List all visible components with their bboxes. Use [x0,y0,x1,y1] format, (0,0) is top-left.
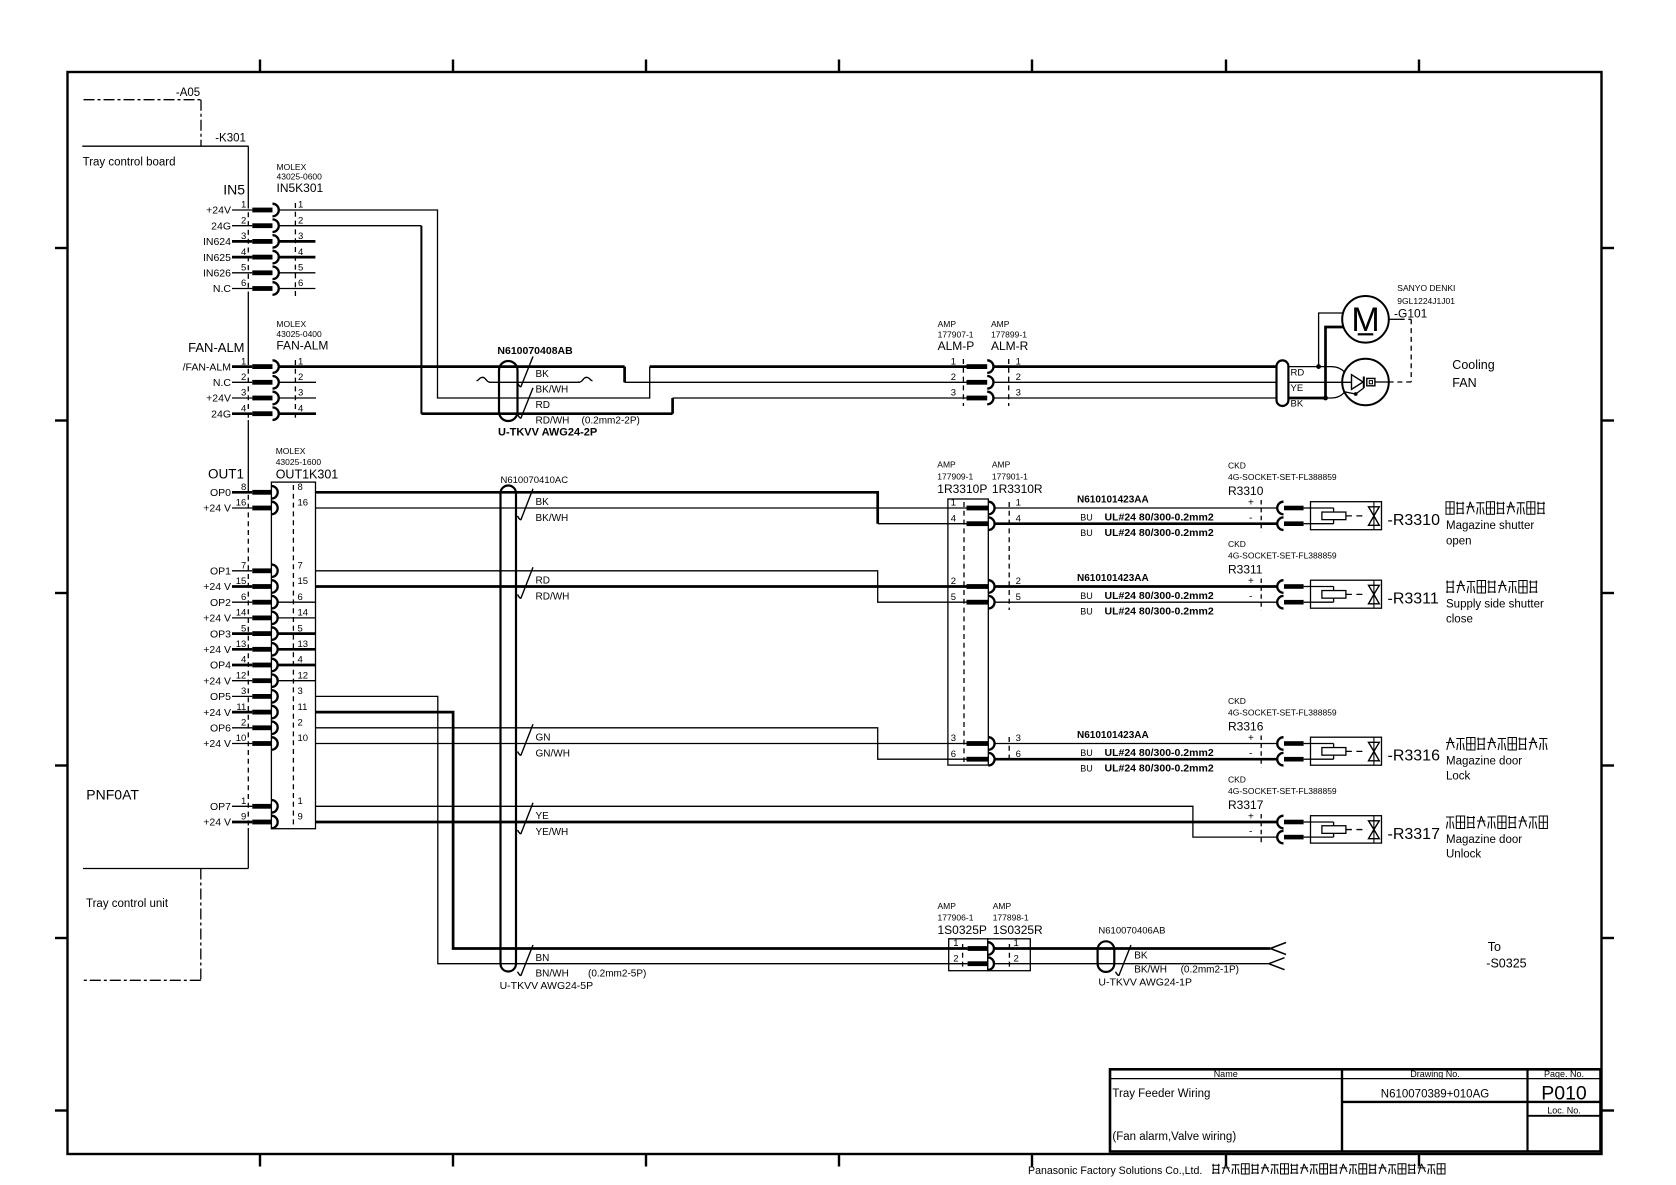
wire RD up to motor [1319,313,1344,367]
wire BN (+24V) [316,712,968,948]
svg-text:(Fan alarm,Valve wiring): (Fan alarm,Valve wiring) [1112,1131,1236,1143]
valve R3317 Magazine door Unlock [1228,775,1547,861]
svg-text:OP5: OP5 [210,691,231,703]
svg-text:GN: GN [536,733,551,744]
svg-text:+24 V: +24 V [203,675,231,687]
node: RD junction [1316,364,1321,369]
svg-text:Name: Name [1214,1069,1238,1079]
svg-text:BK: BK [536,497,550,508]
svg-text:-G101: -G101 [1394,307,1428,321]
wire BK to -S0325 [995,947,1270,950]
svg-text:4G-SOCKET-SET-FL388859: 4G-SOCKET-SET-FL388859 [1228,786,1337,796]
svg-text:close: close [1446,614,1473,626]
svg-text:-: - [1249,513,1252,524]
svg-text:1: 1 [241,356,246,367]
svg-text:5: 5 [298,263,303,274]
svg-text:1R3310R: 1R3310R [992,482,1043,496]
svg-text:+24 V: +24 V [203,613,231,625]
svg-text:CKD: CKD [1228,775,1246,785]
svg-text:43025-1600: 43025-1600 [276,457,322,467]
svg-text:Unlock: Unlock [1446,849,1481,861]
svg-text:OP7: OP7 [210,801,231,813]
svg-text:ALM-P: ALM-P [938,339,975,353]
wire RD (OP1) [316,571,967,602]
svg-text:AMP: AMP [937,460,956,470]
wire /FAN-ALM BK (thick) [280,365,625,368]
svg-text:3: 3 [298,388,303,399]
svg-text:-K301: -K301 [215,133,246,145]
svg-text:177907-1: 177907-1 [938,330,974,340]
svg-text:+24 V: +24 V [203,707,231,719]
svg-text:FAN-ALM: FAN-ALM [188,340,244,355]
svg-text:+24 V: +24 V [203,503,231,515]
svg-text:1: 1 [298,200,303,211]
svg-text:SANYO DENKI: SANYO DENKI [1397,283,1455,293]
svg-text:OUT1K301: OUT1K301 [276,468,339,482]
svg-text:2: 2 [953,953,958,964]
svg-text:10: 10 [236,733,247,744]
svg-text:1R3310P: 1R3310P [937,482,987,496]
svg-text:ALM-R: ALM-R [991,339,1029,353]
svg-text:N610101423AA: N610101423AA [1077,495,1149,506]
svg-text:RD/WH: RD/WH [536,416,570,427]
svg-text:1: 1 [1016,498,1021,509]
svg-text:Magazine door: Magazine door [1446,756,1522,768]
svg-text:2: 2 [1016,372,1021,383]
svg-text:R3316: R3316 [1228,720,1264,734]
svg-text:OP1: OP1 [210,566,231,578]
svg-text:-A05: -A05 [176,87,200,99]
svg-text:OP6: OP6 [210,723,231,735]
wire RD/WH (+24V) [316,585,967,588]
wire BK to fan [994,397,1277,399]
svg-text:AMP: AMP [991,319,1010,329]
svg-text:P010: P010 [1541,1083,1587,1105]
svg-text:OP3: OP3 [210,628,231,640]
svg-text:4: 4 [241,655,246,666]
svg-text:UL#24 80/300-0.2mm2: UL#24 80/300-0.2mm2 [1105,763,1214,775]
svg-text:14: 14 [236,608,247,619]
motor M [1342,296,1389,343]
svg-text:BU: BU [1080,591,1093,601]
svg-text:AMP: AMP [938,319,957,329]
svg-text:-: - [1249,827,1252,838]
svg-text:3: 3 [298,686,303,697]
connector pair 1S0325P / 1S0325R (AMP 177906-1 / 177898-1) [938,901,1044,971]
svg-text:15: 15 [236,576,247,587]
svg-text:Tray Feeder Wiring: Tray Feeder Wiring [1112,1088,1210,1100]
svg-text:BN/WH: BN/WH [536,969,569,980]
svg-text:-: - [1249,592,1252,603]
svg-text:+: + [1248,498,1254,509]
svg-text:4G-SOCKET-SET-FL388859: 4G-SOCKET-SET-FL388859 [1228,472,1337,482]
node: BK junction [1323,396,1328,401]
svg-text:U-TKVV AWG24-2P: U-TKVV AWG24-2P [498,427,597,439]
svg-text:16: 16 [236,498,247,509]
wire 24G to ALM-P pin3 [673,397,967,399]
svg-text:5: 5 [241,623,246,634]
svg-text:177909-1: 177909-1 [937,472,973,482]
wire BN/WH (OP5) [316,696,968,963]
svg-text:2: 2 [241,718,246,729]
svg-text:PNF0AT: PNF0AT [86,787,139,803]
svg-text:(0.2mm2-1P): (0.2mm2-1P) [1181,965,1239,976]
svg-text:1: 1 [951,498,956,509]
svg-text:2: 2 [298,372,303,383]
svg-text:N.C: N.C [213,283,232,295]
svg-text:2: 2 [241,372,246,383]
wire RD to fan [994,365,1277,368]
wire GN/WH (+24V) [316,743,967,745]
svg-text:4G-SOCKET-SET-FL388859: 4G-SOCKET-SET-FL388859 [1228,708,1337,718]
connector pair 1R3310P / 1R3310R (AMP 177909-1 / 177901-1) [937,460,1043,766]
svg-text:14: 14 [298,608,309,619]
connector IN5K301 (MOLEX 43025-0600), plug IN5 [203,162,324,296]
svg-text:BN: BN [536,953,550,964]
svg-text:43025-0400: 43025-0400 [276,329,322,339]
arrowheads [1269,943,1286,970]
svg-text:To: To [1488,940,1501,954]
svg-text:4: 4 [241,403,246,414]
cable N610070408AB (U-TKVV AWG24-2P) [497,345,639,439]
svg-text:3: 3 [951,733,956,744]
wire 24G: IN5 pin2 down [280,225,422,227]
valve R3316 Magazine door Lock [1077,696,1547,783]
svg-text:10: 10 [298,733,309,744]
wire YE (OP7) [316,806,1278,837]
svg-text:15: 15 [298,576,309,587]
svg-text:177901-1: 177901-1 [992,472,1028,482]
cable grommet at fan [1277,360,1305,409]
svg-text:BU: BU [1080,748,1093,758]
svg-text:CKD: CKD [1228,539,1246,549]
svg-text:Panasonic Factory Solutions Co: Panasonic Factory Solutions Co.,Ltd. [1028,1165,1202,1177]
title block [1110,1069,1601,1152]
alarm contact [1342,359,1389,406]
svg-text:13: 13 [236,639,247,650]
svg-text:Drawing No.: Drawing No. [1410,1069,1460,1079]
svg-text:5: 5 [241,263,246,274]
svg-text:-R3310: -R3310 [1388,512,1441,529]
svg-text:OP4: OP4 [210,660,231,672]
wire GN (OP6) [316,728,967,759]
svg-text:MOLEX: MOLEX [276,446,306,456]
svg-text:U-TKVV AWG24-1P: U-TKVV AWG24-1P [1098,977,1192,989]
svg-text:UL#24 80/300-0.2mm2: UL#24 80/300-0.2mm2 [1105,527,1214,539]
svg-text:UL#24 80/300-0.2mm2: UL#24 80/300-0.2mm2 [1105,606,1214,618]
svg-text:12: 12 [236,670,247,681]
label To -S0325 [1486,940,1526,971]
wire BK/WH (+24V) [316,507,967,509]
svg-text:2: 2 [298,215,303,226]
label -G101 / SANYO DENKI [1394,283,1455,321]
svg-text:BU: BU [1080,607,1093,617]
svg-text:open: open [1446,536,1472,548]
svg-text:+24 V: +24 V [203,644,231,656]
svg-text:+24V: +24V [206,205,231,217]
svg-text:R3311: R3311 [1228,563,1263,577]
wire /FAN-ALM to ALM-P pin2 [625,381,967,383]
svg-text:UL#24 80/300-0.2mm2: UL#24 80/300-0.2mm2 [1105,590,1214,602]
svg-text:N610070389+010AG: N610070389+010AG [1381,1089,1489,1101]
svg-text:6: 6 [241,592,246,603]
svg-text:9: 9 [298,812,303,823]
svg-text:5: 5 [951,592,956,603]
svg-text:7: 7 [241,561,246,572]
svg-text:11: 11 [236,702,246,713]
svg-text:+: + [1248,812,1254,823]
svg-text:3: 3 [241,388,246,399]
svg-text:YE: YE [536,811,550,822]
svg-text:177898-1: 177898-1 [993,913,1029,923]
svg-text:AMP: AMP [993,901,1012,911]
svg-text:IN5: IN5 [223,182,245,198]
svg-text:Magazine door: Magazine door [1446,834,1522,846]
svg-text:N610070410AC: N610070410AC [501,475,569,486]
svg-text:+: + [1248,576,1254,587]
svg-text:OP2: OP2 [210,597,231,609]
svg-text:FAN-ALM: FAN-ALM [276,339,328,353]
svg-text:9: 9 [241,812,246,823]
svg-text:Supply side shutter: Supply side shutter [1446,599,1544,611]
svg-text:+24 V: +24 V [203,817,231,829]
svg-text:8: 8 [241,482,246,493]
svg-text:Tray control unit: Tray control unit [86,898,169,910]
svg-text:1: 1 [951,356,956,367]
svg-text:Page. No.: Page. No. [1544,1069,1584,1079]
svg-text:-S0325: -S0325 [1486,957,1526,971]
svg-text:Cooling: Cooling [1452,358,1494,372]
svg-text:RD: RD [1291,368,1305,379]
label Cooling FAN [1452,358,1494,390]
svg-text:3: 3 [1016,388,1021,399]
wire BK up to motor [1326,327,1344,398]
svg-text:7: 7 [298,561,303,572]
svg-text:177906-1: 177906-1 [938,913,974,923]
svg-text:UL#24 80/300-0.2mm2: UL#24 80/300-0.2mm2 [1105,747,1214,759]
svg-text:24G: 24G [211,408,231,420]
svg-text:1: 1 [241,796,246,807]
svg-text:OP0: OP0 [210,487,231,499]
svg-text:FAN: FAN [1452,376,1476,390]
svg-text:2: 2 [951,372,956,383]
svg-text:3: 3 [241,686,246,697]
valve R3311 Supply side shutter close [1077,539,1544,626]
unused conductor BK/WH with curled ends [477,377,593,382]
svg-text:3: 3 [951,388,956,399]
wire BK/WH to -S0325 [995,963,1269,965]
svg-text:3: 3 [1016,733,1021,744]
svg-text:IN624: IN624 [203,236,231,248]
svg-text:-: - [1249,749,1252,760]
svg-text:+24 V: +24 V [203,738,231,750]
connector OUT1K301 (MOLEX 43025-1600) [203,446,338,829]
svg-text:(0.2mm2-2P): (0.2mm2-2P) [582,416,640,427]
svg-text:IN625: IN625 [203,252,231,264]
svg-text:AMP: AMP [992,460,1011,470]
svg-text:8: 8 [298,482,303,493]
svg-text:12: 12 [298,670,309,681]
svg-text:+24 V: +24 V [203,581,231,593]
svg-text:1S0325P: 1S0325P [938,923,987,937]
svg-text:BK: BK [536,369,550,380]
svg-text:AMP: AMP [938,901,957,911]
connector FAN-ALM (MOLEX 43025-0400) [183,319,329,420]
svg-text:1S0325R: 1S0325R [993,923,1043,937]
svg-text:Magazine shutter: Magazine shutter [1446,520,1534,532]
svg-text:CKD: CKD [1228,696,1246,706]
svg-text:4: 4 [241,247,246,258]
svg-text:BK/WH: BK/WH [536,513,569,524]
valve R3310 (CKD 4G-SOCKET-SET-FL388859) Magazine shutter open [1077,461,1545,548]
svg-text:BU: BU [1080,528,1093,538]
wire YE to alarm contact [994,381,1277,383]
svg-text:OUT1: OUT1 [208,467,244,482]
svg-text:16: 16 [298,498,309,509]
wires 1R3310R to valve sockets [995,508,1278,759]
svg-text:BU: BU [1080,764,1093,774]
svg-text:1: 1 [241,200,246,211]
svg-text:N.C: N.C [213,377,232,389]
svg-text:RD: RD [536,576,550,587]
svg-text:IN5K301: IN5K301 [277,181,324,195]
svg-text:IN626: IN626 [203,268,231,280]
svg-text:-R3317: -R3317 [1388,826,1441,843]
svg-text:4G-SOCKET-SET-FL388859: 4G-SOCKET-SET-FL388859 [1228,551,1337,561]
svg-text:9GL1224J1J01: 9GL1224J1J01 [1397,296,1455,306]
svg-text:6: 6 [951,749,956,760]
svg-text:RD: RD [536,400,550,411]
svg-text:MOLEX: MOLEX [276,319,306,329]
svg-text:11: 11 [298,702,308,713]
svg-text:4: 4 [951,513,956,524]
svg-text:5: 5 [1016,592,1021,603]
svg-text:Loc. No.: Loc. No. [1547,1106,1581,1116]
svg-text:-R3311: -R3311 [1388,591,1439,608]
svg-text:CKD: CKD [1228,461,1246,471]
svg-text:+: + [1248,733,1254,744]
wire +24V RD (thick) to ALM-P pin1 [650,365,967,368]
wire BK (OP0) [316,492,878,523]
wire BK into alarm contact [1326,392,1356,398]
svg-text:MOLEX: MOLEX [277,162,307,172]
svg-text:BK/WH: BK/WH [1134,965,1167,976]
svg-text:UL#24 80/300-0.2mm2: UL#24 80/300-0.2mm2 [1105,511,1214,523]
svg-text:BK/WH: BK/WH [536,385,569,396]
svg-text:BK: BK [1291,399,1304,410]
svg-text:U-TKVV AWG24-5P: U-TKVV AWG24-5P [500,980,594,992]
wire 24G RD/WH (thick) [421,412,672,415]
svg-text:177899-1: 177899-1 [991,330,1027,340]
svg-text:6: 6 [298,278,303,289]
svg-text:2: 2 [951,576,956,587]
svg-text:24G: 24G [211,220,231,232]
svg-text:GN/WH: GN/WH [536,749,570,760]
svg-text:3: 3 [241,231,246,242]
connector pair ALM-P / ALM-R (AMP 177907-1 / 177899-1) [938,319,1029,406]
svg-text:R3317: R3317 [1228,798,1264,812]
svg-text:Lock: Lock [1446,771,1471,783]
svg-text:N610101423AA: N610101423AA [1077,573,1149,584]
svg-text:1: 1 [298,796,303,807]
cable N610070406AB (U-TKVV AWG24-1P) [1098,926,1239,989]
svg-text:N610101423AA: N610101423AA [1077,730,1149,741]
svg-text:Tray control board: Tray control board [83,157,176,169]
wire +24V: IN5 pin1 to RD row [280,210,650,398]
svg-text:2: 2 [1014,953,1019,964]
svg-text:6: 6 [298,592,303,603]
svg-text:YE/WH: YE/WH [536,827,569,838]
cable N610070410AC (U-TKVV AWG24-5P) [500,475,647,992]
board boundary -K301 Tray control board [82,133,248,911]
svg-text:43025-0600: 43025-0600 [277,172,323,182]
svg-text:BK: BK [1134,951,1148,962]
unit boundary -A05 (dash-dot) [83,87,201,980]
svg-text:YE: YE [1291,383,1304,394]
svg-text:+24V: +24V [206,393,231,405]
svg-text:2: 2 [241,215,246,226]
svg-text:(0.2mm2-5P): (0.2mm2-5P) [588,969,646,980]
wire YE/WH (+24V) [316,821,1278,824]
svg-text:6: 6 [241,278,246,289]
svg-text:1: 1 [953,938,958,949]
svg-text:R3310: R3310 [1228,484,1264,498]
wire RD into alarm contact [1319,367,1345,373]
fan unit boundary (dashed) [1389,319,1411,382]
svg-text:RD/WH: RD/WH [536,592,570,603]
svg-text:/FAN-ALM: /FAN-ALM [183,361,231,373]
svg-text:N610070408AB: N610070408AB [497,345,573,357]
svg-text:-R3316: -R3316 [1388,748,1441,765]
svg-text:BU: BU [1080,512,1093,522]
svg-text:N610070406AB: N610070406AB [1098,926,1165,937]
svg-text:2: 2 [298,718,303,729]
